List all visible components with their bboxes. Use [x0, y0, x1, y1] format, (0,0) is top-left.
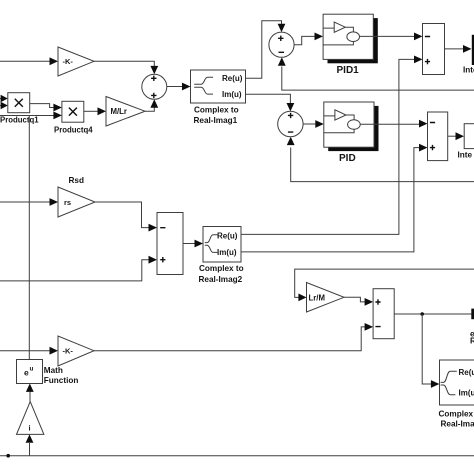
block Math Function e^u — [17, 360, 79, 385]
wire add4 output to right edge — [394, 309, 474, 320]
block Complex to Real-Imag1 — [191, 70, 246, 125]
svg-text:rs: rs — [64, 198, 71, 207]
wire input 2 to Productq1 — [0, 102, 8, 109]
block PID1 with shadow — [323, 14, 378, 76]
svg-text:Re(u): Re(u) — [217, 232, 238, 241]
wire Im(u)1 to sum2 top — [246, 94, 295, 111]
svg-text:Im(u): Im(u) — [217, 248, 237, 257]
svg-text:-K-: -K- — [63, 347, 74, 356]
junction dot on bottom line — [6, 454, 10, 458]
svg-text:Function: Function — [44, 376, 79, 385]
block Complex to Real-Imag2 — [199, 227, 244, 285]
svg-text:Math: Math — [44, 366, 63, 375]
svg-text:Real-Imag2: Real-Imag2 — [199, 275, 243, 284]
wire bottom line to gain i — [26, 434, 34, 455]
block Integrator (cut off) — [458, 124, 474, 160]
wire gain i to Math Function — [26, 384, 34, 402]
wire PID1 to add1 minus — [373, 33, 422, 41]
wire add1 to Integrator1 — [445, 45, 472, 53]
gain M/Lr — [106, 97, 145, 127]
wire add3 to Complex to Real-Imag2 — [183, 240, 203, 248]
svg-text:Productq4: Productq4 — [54, 126, 93, 135]
svg-text:PID1: PID1 — [337, 65, 360, 76]
svg-text:R: R — [470, 337, 474, 346]
svg-text:M/Lr: M/Lr — [111, 107, 127, 116]
svg-text:Complex to: Complex to — [194, 106, 239, 115]
svg-text:i: i — [29, 423, 31, 432]
gain i (points up) — [17, 402, 44, 435]
wire lower input line to Productq4 — [0, 112, 62, 120]
block Productq1 — [0, 93, 39, 125]
wire add2 to Integrator — [448, 132, 464, 140]
svg-text:Im(u: Im(u — [459, 388, 474, 397]
wire branch from Math Function up to lower line (vertical) — [28, 116, 30, 360]
wire junction down to Complex to Real-Imag3 — [422, 314, 439, 388]
wire feedback from right edge into sum2 bottom — [287, 137, 474, 182]
svg-text:Lr/M: Lr/M — [309, 293, 325, 302]
svg-text:Rsd: Rsd — [69, 176, 84, 185]
wire lower-left input line up to add3 plus — [0, 256, 157, 281]
wire Complex2 Im(u) up to add2 plus — [241, 144, 428, 252]
svg-text:Productq1: Productq1 — [0, 115, 39, 124]
wire Productq4 to gain M/Lr — [84, 107, 106, 115]
gain -K-1 — [58, 336, 94, 366]
add2 block — [428, 112, 448, 161]
wire sum1 to PID1 — [294, 33, 323, 45]
svg-text:Re(u): Re(u) — [222, 74, 243, 83]
add3 block — [157, 213, 183, 275]
svg-text:Complex to: Complex to — [199, 264, 244, 273]
block Complex to Real-Imag3 (cut off) — [439, 360, 474, 429]
wire sum0 to Complex to Real-Imag1 — [167, 83, 191, 91]
wire gain M/Lr to sum0 bottom — [145, 99, 158, 111]
svg-text:Complex to: Complex to — [439, 410, 474, 419]
svg-text:u: u — [30, 366, 34, 373]
wire gain -K-1 output to add4 minus — [94, 323, 373, 351]
svg-text:Re(u: Re(u — [459, 368, 474, 377]
wire gain Lr/M to add4 plus — [344, 297, 373, 306]
svg-text:Inte: Inte — [458, 151, 473, 160]
sum0 circle — [142, 74, 167, 99]
wire feedback from right edge into sum1 bottom — [278, 57, 474, 90]
label of off-screen block at right edge — [470, 330, 474, 346]
wire PID to add2 minus — [374, 120, 428, 128]
gain rs — [58, 187, 95, 217]
wire feedback from right edge to gain Lr/M — [295, 269, 474, 301]
svg-text:Im(u): Im(u) — [222, 90, 242, 99]
svg-text:PID: PID — [339, 153, 356, 164]
svg-text:Real-Imag1: Real-Imag1 — [194, 116, 238, 125]
gain Lr/M — [307, 283, 345, 313]
wire input to gain -K-1 — [0, 347, 58, 355]
svg-text:e: e — [24, 368, 29, 378]
wire bottom bus line — [0, 455, 474, 457]
add1 block — [423, 24, 445, 75]
wire gain -K- to sum0 top — [94, 61, 158, 74]
svg-text:-K-: -K- — [63, 57, 74, 66]
svg-text:Real-Imag3: Real-Imag3 — [441, 420, 474, 429]
label Rsd — [69, 176, 84, 185]
wire input to gain -K- — [0, 57, 58, 65]
wire gain rs to add3 minus — [95, 202, 157, 232]
wire input 1 to Productq1 — [0, 95, 8, 102]
sum2 circle — [278, 111, 303, 136]
wire sum2 to PID — [303, 120, 324, 128]
block Productq4 — [54, 101, 93, 134]
block Integrator1 edge (cut off) — [463, 35, 474, 75]
svg-text:Inte: Inte — [463, 65, 474, 74]
wire input to gain rs — [0, 198, 58, 206]
wire Re(u)1 loop up to sum1 top — [246, 21, 286, 78]
add4 block — [373, 289, 394, 339]
gain -K- — [58, 47, 94, 76]
wire Productq1 to Productq4 — [30, 104, 62, 112]
block PID with shadow — [324, 102, 379, 164]
junction dot on add4 output — [420, 312, 424, 316]
wire Complex2 Re(u) up to add1 plus — [241, 56, 423, 235]
sum1 circle — [269, 32, 294, 57]
